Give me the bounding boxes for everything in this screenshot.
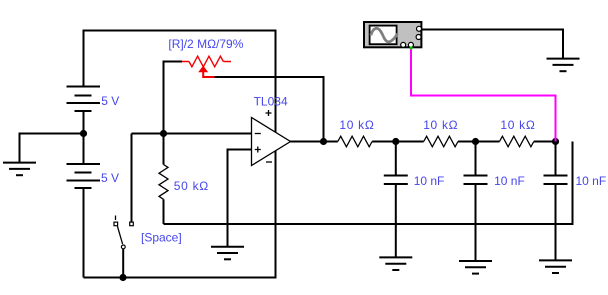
wire scope probe (magenta) to node 4 — [411, 48, 556, 141]
svg-text:10 nF: 10 nF — [414, 174, 445, 188]
svg-text:10 nF: 10 nF — [494, 174, 525, 188]
node 3 — [472, 138, 479, 145]
capacitor C2 10 nF — [464, 142, 488, 262]
scope probe connection mark (green) — [410, 47, 413, 50]
resistor R3 10 kΩ — [476, 136, 556, 147]
wire feedback (50k bottom to RC ladder output) — [164, 142, 573, 225]
node battery midpoint — [80, 130, 87, 137]
capacitor C1 10 nF — [384, 142, 408, 258]
potentiometer R 2MΩ (red) — [182, 56, 231, 77]
ground (C2) — [459, 261, 492, 274]
node 4 (RC ladder output) — [552, 138, 559, 145]
node switch to bottom rail junction — [119, 274, 126, 281]
battery V2 — [67, 134, 101, 278]
capacitor C3 10 nF — [544, 142, 568, 261]
wire op-amp noninverting input to ground — [228, 150, 252, 247]
node A — [160, 130, 167, 137]
svg-text:[Space]: [Space] — [141, 231, 182, 245]
op-amp U1 triangle — [252, 110, 291, 166]
wire node A to op-amp inverting input — [132, 133, 252, 135]
wire pot left terminal to node A — [164, 62, 183, 134]
svg-text:TL034: TL034 — [254, 95, 288, 109]
ground (scope) — [547, 59, 580, 72]
wire scope channel terminal to ground — [422, 30, 563, 59]
wire op-amp output to node 1 — [291, 141, 324, 143]
svg-text:10 kΩ: 10 kΩ — [339, 118, 374, 132]
ground (C3) — [539, 260, 572, 273]
ground (op-amp noninverting input) — [211, 247, 244, 260]
wire node A to switch terminal — [131, 134, 133, 223]
resistor 50 kΩ (node A down to feedback wire) — [159, 134, 168, 225]
wire pot wiper to node 1 — [215, 77, 324, 142]
battery V1 — [67, 87, 101, 134]
svg-text:10 kΩ: 10 kΩ — [423, 118, 458, 132]
node 1 (op-amp output) — [320, 138, 327, 145]
wire battery midpoint to left ground — [20, 134, 84, 163]
svg-text:[R]/2 MΩ/79%: [R]/2 MΩ/79% — [168, 37, 243, 51]
switch J1 — [114, 216, 133, 278]
wire bottom rail (battery negative to op-amp V-) — [84, 151, 276, 278]
node 2 — [392, 138, 399, 145]
oscilloscope XSC1 — [364, 22, 422, 47]
svg-text:10 nF: 10 nF — [576, 174, 607, 188]
svg-text:10 kΩ: 10 kΩ — [500, 118, 535, 132]
resistor R2 10 kΩ — [396, 136, 476, 147]
ground (left) — [3, 163, 36, 176]
svg-text:50 kΩ: 50 kΩ — [174, 179, 209, 193]
ground (C1) — [379, 257, 412, 270]
wire top rail (+5V to op-amp V+) — [84, 31, 276, 133]
svg-text:5 V: 5 V — [101, 94, 119, 108]
resistor R1 10 kΩ — [324, 136, 396, 147]
svg-text:5 V: 5 V — [101, 171, 119, 185]
